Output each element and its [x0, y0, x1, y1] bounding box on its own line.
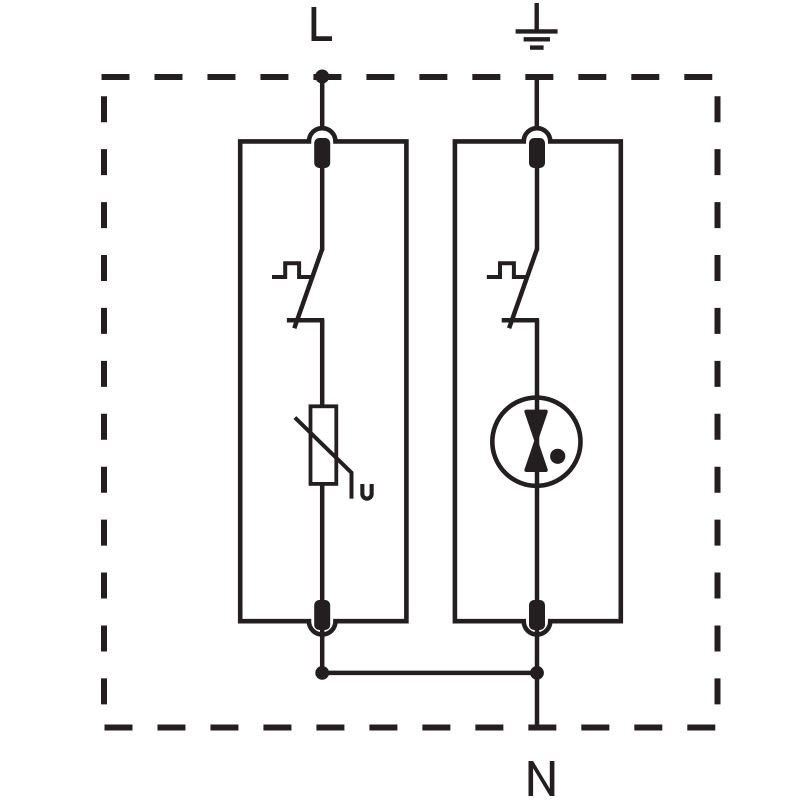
spark gap bottom triangle — [526, 442, 545, 471]
enclosure dashed outline bottom — [105, 725, 716, 731]
node junction dot module 1 — [315, 666, 329, 680]
wire varistor to bottom pill — [320, 483, 325, 601]
terminal label N — [529, 761, 555, 796]
wire L to module 1 — [320, 77, 325, 129]
spark gap top triangle — [526, 412, 545, 440]
wire disconnector 2 through spark gap — [535, 320, 540, 601]
wire module 2 bottom pill down — [535, 629, 540, 673]
module 2 top terminal pill — [529, 138, 545, 168]
thermal disconnector 2 blade — [509, 249, 537, 328]
node junction dot module 2 — [530, 666, 544, 680]
module 1 bottom terminal pill — [314, 600, 330, 630]
enclosure dashed outline right — [715, 96, 721, 704]
enclosure dashed outline left — [101, 96, 107, 704]
thermal disconnector 1 pulse symbol — [272, 263, 313, 277]
wire module 1 bottom pill down — [320, 629, 325, 673]
module 2 box with terminal arcs — [455, 128, 621, 634]
wire pill to disconnector 1 — [320, 166, 325, 251]
wire pill to disconnector 2 — [535, 166, 540, 251]
module 2 bottom terminal pill — [529, 600, 545, 630]
thermal disconnector 2 pulse symbol — [487, 263, 528, 277]
wire to N — [535, 673, 540, 728]
module 1 top terminal pill — [314, 138, 330, 168]
thermal disconnector 1 contact bar — [287, 318, 324, 323]
spark gap circle — [492, 398, 580, 486]
thermal disconnector 2 contact bar — [502, 318, 539, 323]
varistor label u — [360, 484, 373, 501]
wire PE to module 2 — [535, 79, 540, 129]
varistor diagonal arrow — [295, 418, 352, 499]
node L junction dot — [315, 70, 329, 84]
bottom bus wire — [322, 671, 537, 676]
wire disconnector 1 to varistor — [320, 320, 325, 407]
module 1 box with terminal arcs — [240, 128, 406, 634]
terminal label L — [312, 7, 333, 41]
varistor box — [311, 406, 337, 484]
enclosure dashed outline top — [102, 74, 713, 80]
spark gap dot — [550, 449, 565, 464]
ground symbol PE — [516, 3, 558, 48]
thermal disconnector 1 blade — [294, 249, 322, 328]
